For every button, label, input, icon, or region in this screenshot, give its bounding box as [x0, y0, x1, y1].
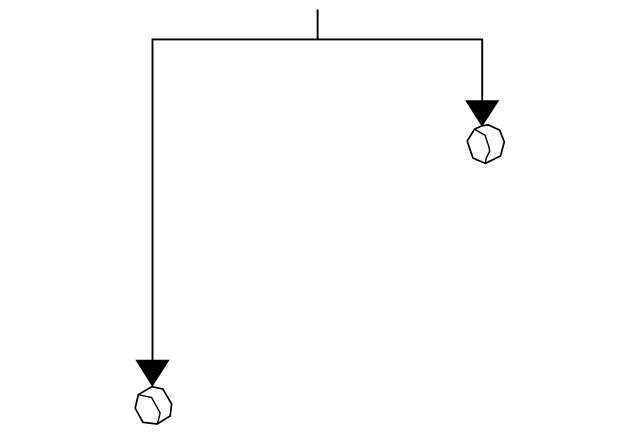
arrowhead right	[466, 101, 498, 126]
stone left	[135, 387, 171, 424]
wire: top stub	[317, 10, 319, 40]
arrowhead left	[136, 360, 169, 386]
stone right	[467, 125, 504, 163]
wire: beam with left and right drops	[153, 39, 483, 360]
